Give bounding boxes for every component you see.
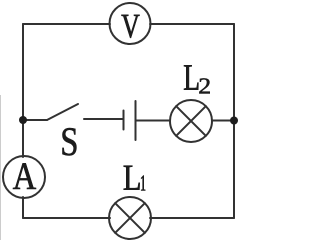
wire: left vertical (ammeter to bottom corner) bbox=[22, 197, 24, 218]
wire: left vertical (corner to ammeter) bbox=[22, 24, 24, 157]
label A bbox=[13, 163, 36, 189]
left scan edge artifact bbox=[0, 95, 2, 240]
wire: top-left segment bbox=[23, 23, 110, 25]
label S bbox=[63, 128, 77, 156]
label L1 bbox=[124, 166, 140, 190]
label L2 bbox=[184, 65, 198, 89]
ammeter A circle bbox=[3, 156, 45, 198]
wire: bottom-right segment bbox=[150, 217, 234, 219]
wire: top-right segment bbox=[150, 23, 234, 25]
switch S blade bbox=[47, 104, 78, 120]
battery short plate bbox=[123, 111, 125, 130]
voltmeter V circle bbox=[110, 3, 151, 44]
lamp L2 cross bbox=[176, 106, 206, 136]
wire: battery to lamp L2 bbox=[136, 120, 171, 122]
wire: bottom-left segment bbox=[23, 217, 110, 219]
node: left junction dot bbox=[19, 116, 27, 124]
wire: switch contact to battery bbox=[84, 118, 124, 120]
lamp L1 cross bbox=[115, 203, 145, 233]
node: right junction dot bbox=[230, 117, 238, 125]
lamp L2 circle bbox=[170, 100, 212, 142]
lamp L1 circle bbox=[109, 197, 151, 239]
wire: middle branch from left node to switch pivot bbox=[23, 119, 47, 121]
label V bbox=[122, 15, 140, 38]
wire: right vertical bbox=[233, 24, 235, 218]
wire: lamp L2 to right node bbox=[212, 120, 234, 122]
battery long plate bbox=[135, 101, 137, 140]
